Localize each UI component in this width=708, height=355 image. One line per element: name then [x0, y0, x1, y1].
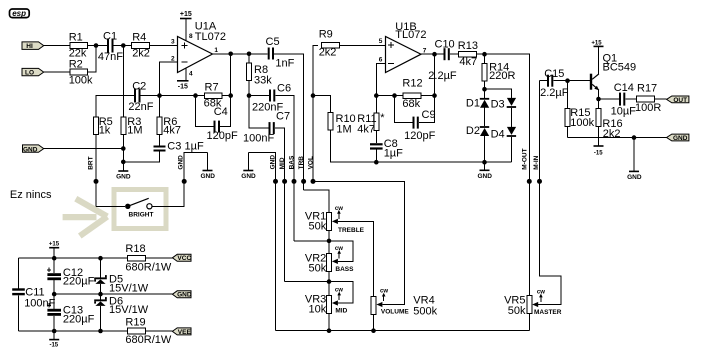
svg-text:MASTER: MASTER	[534, 309, 562, 316]
wire VR1 wiper to VR4 top	[338, 221, 374, 296]
svg-text:C1: C1	[103, 31, 117, 43]
supply stub -15 (R16 bottom)	[594, 127, 604, 157]
svg-text:8: 8	[189, 33, 193, 40]
svg-text:680R/1W: 680R/1W	[125, 262, 171, 274]
resistor R9	[319, 28, 340, 58]
svg-text:1nF: 1nF	[275, 57, 294, 69]
svg-text:4k7: 4k7	[459, 56, 477, 68]
svg-text:R7: R7	[205, 82, 219, 94]
U1A pin 4 supply stub -15	[177, 68, 193, 91]
svg-text:esp: esp	[12, 9, 26, 18]
svg-text:R4: R4	[132, 32, 146, 44]
svg-text:Ez nincs: Ez nincs	[10, 189, 52, 201]
wire C3 bottom to node	[123, 152, 159, 162]
resistor R1	[69, 32, 88, 60]
capacitor C9 with loop wires	[395, 96, 436, 142]
connector GND (power)	[172, 291, 191, 299]
svg-text:TL072: TL072	[395, 29, 426, 41]
svg-text:1k: 1k	[99, 125, 111, 137]
svg-text:1µF: 1µF	[384, 148, 403, 160]
wire U1B pin6 feedback stub	[376, 63, 385, 95]
svg-text:C10: C10	[435, 39, 455, 51]
node VR4/ground bus	[371, 328, 376, 333]
capacitor C1	[98, 31, 123, 64]
node diode bottom / ground line	[482, 160, 487, 165]
svg-text:220µF: 220µF	[63, 313, 95, 325]
node R7 right	[228, 93, 233, 98]
resistor R7	[204, 82, 222, 110]
wire VR5 bottom to ground bus	[528, 313, 530, 330]
wire R6 to C3	[159, 135, 161, 146]
ground symbol below C3 node	[116, 162, 131, 181]
connector GND (output)	[667, 134, 689, 142]
wire VR2 bottom	[328, 272, 330, 296]
svg-text:+15: +15	[49, 242, 60, 248]
node BAS breakout	[292, 179, 297, 184]
wire R11 to C8	[375, 131, 377, 144]
resistor R4	[132, 32, 150, 60]
svg-text:MID: MID	[335, 307, 347, 314]
capacitor C4 with loop wires	[196, 96, 238, 142]
capacitor C10	[428, 39, 457, 82]
ground symbol below output GND wire	[627, 138, 642, 182]
wire diode top cross	[485, 89, 512, 98]
wire R4 to U1A pin3	[150, 45, 178, 47]
wire BAS to VR2 top	[294, 240, 329, 242]
resistor R8	[247, 54, 273, 96]
op-amp U1B	[386, 21, 427, 73]
resistor R3	[121, 116, 143, 137]
svg-text:VCC: VCC	[177, 255, 191, 262]
resistor R10	[328, 113, 356, 136]
capacitor C11	[12, 258, 55, 331]
node TRB breakout	[301, 179, 306, 184]
wire R6 top	[159, 96, 161, 117]
capacitor C13	[47, 294, 95, 331]
svg-text:M-IN: M-IN	[533, 155, 540, 169]
node mid rail / C12 C13	[52, 292, 57, 297]
svg-text:4k7: 4k7	[163, 125, 181, 137]
wire LO to R2	[44, 71, 70, 73]
svg-text:68k: 68k	[402, 98, 420, 110]
svg-text:4k7: 4k7	[357, 124, 375, 136]
svg-text:C14: C14	[614, 82, 634, 94]
resistor R5	[94, 116, 113, 137]
svg-text:+15: +15	[591, 40, 602, 46]
wire M-IN to C15	[540, 80, 548, 82]
wire R10 branch	[313, 96, 331, 113]
svg-text:BC549: BC549	[603, 62, 637, 74]
svg-text:2: 2	[171, 55, 175, 62]
node bottom rail / C13	[52, 329, 57, 334]
svg-text:-15: -15	[178, 84, 188, 91]
svg-text:VEE: VEE	[178, 329, 192, 336]
node GND stub	[632, 135, 637, 140]
svg-text:M-OUT: M-OUT	[522, 148, 529, 169]
wire R3 bottom	[122, 135, 124, 149]
cw marker VR1	[335, 206, 343, 219]
diode D1	[466, 89, 489, 109]
svg-text:TL072: TL072	[195, 31, 226, 43]
capacitor C6	[252, 83, 291, 114]
annotation box around BRIGHT switch (beige)	[114, 190, 166, 229]
zener diode D5	[94, 258, 149, 295]
potentiometer VR1	[305, 211, 365, 234]
svg-text:BRIGHT: BRIGHT	[129, 211, 154, 218]
resistor R15	[565, 81, 595, 138]
svg-text:+15: +15	[180, 11, 192, 18]
svg-text:C9: C9	[422, 109, 436, 121]
wire R10 bottom to ground line	[331, 130, 512, 162]
wire VOL breakout to VR4 wiper	[313, 181, 405, 304]
wire VR3 wiper loop	[329, 282, 353, 303]
wire C8 bottom	[375, 150, 377, 163]
node VR2/VR3	[327, 279, 332, 284]
svg-text:D3: D3	[491, 99, 505, 111]
svg-text:1M: 1M	[336, 124, 351, 136]
node top rail / D5	[98, 256, 103, 261]
supply stub +15 (Q1 collector)	[591, 40, 603, 74]
wire C7 to MID column	[275, 128, 285, 282]
wire C6 to BAS column	[275, 96, 294, 241]
svg-text:C6: C6	[277, 83, 291, 95]
wire R19 to VEE tag	[146, 330, 173, 332]
svg-text:100nF: 100nF	[243, 133, 274, 145]
svg-text:680R/1W: 680R/1W	[125, 334, 171, 346]
svg-text:R12: R12	[402, 78, 422, 90]
wire R8 node to C6	[249, 95, 269, 97]
svg-text:120pF: 120pF	[404, 130, 435, 142]
wire U1B output	[421, 53, 444, 55]
svg-text:220µF: 220µF	[63, 275, 95, 287]
resistor R19	[125, 316, 171, 346]
svg-text:R19: R19	[125, 316, 145, 328]
svg-text:R9: R9	[319, 28, 333, 40]
svg-text:2k2: 2k2	[132, 48, 150, 60]
wire R2 up to R1 node	[88, 46, 97, 73]
connector HI	[22, 42, 44, 50]
svg-text:GND: GND	[178, 155, 185, 170]
svg-text:R2: R2	[69, 58, 83, 70]
svg-text:5: 5	[379, 38, 383, 45]
svg-text:GND: GND	[116, 174, 131, 181]
wire C5 to TRB column	[274, 54, 304, 190]
svg-text:-15: -15	[49, 342, 58, 348]
node output/R7	[228, 52, 233, 57]
svg-text:OUT: OUT	[673, 97, 687, 104]
wire C10 to R13	[450, 53, 459, 55]
node output/R12 vertical	[432, 52, 437, 57]
svg-text:100R: 100R	[635, 102, 661, 114]
node BRT breakout	[94, 179, 99, 184]
svg-text:LO: LO	[25, 70, 34, 77]
svg-text:GND: GND	[270, 155, 277, 170]
wire R15 bottom to GND tag	[568, 137, 667, 139]
capacitor C12	[47, 258, 95, 294]
svg-text:47nF: 47nF	[98, 51, 123, 63]
node C9 branch	[392, 93, 397, 98]
svg-text:1: 1	[214, 47, 218, 54]
svg-text:2.2µF: 2.2µF	[540, 87, 569, 99]
connector VCC	[172, 254, 191, 262]
node GND breakout	[273, 179, 278, 184]
svg-text:GND: GND	[177, 292, 192, 299]
wire U1A output line	[213, 53, 268, 55]
wire power bottom rail	[19, 330, 128, 332]
wire power mid rail	[54, 293, 172, 295]
wire power top rail	[19, 257, 128, 259]
wire R9 to U1B pin5	[340, 44, 386, 46]
svg-text:220R: 220R	[489, 70, 515, 82]
svg-text:6: 6	[379, 56, 383, 63]
node R1/R2/C1	[94, 43, 99, 48]
wire C15 to Q1 base	[553, 80, 590, 82]
svg-text:C7: C7	[276, 110, 290, 122]
node C3 return	[121, 160, 126, 165]
node base/R15	[565, 78, 570, 83]
connector OUT	[667, 96, 689, 104]
node M-IN breakout	[537, 179, 542, 184]
wire R13 to M-OUT corner	[477, 54, 530, 295]
svg-text:TREBLE: TREBLE	[338, 227, 365, 234]
svg-text:D1: D1	[466, 97, 480, 109]
svg-text:C2: C2	[132, 81, 146, 93]
svg-text:1µF: 1µF	[185, 140, 204, 152]
svg-text:MID: MID	[279, 157, 286, 169]
node M-OUT breakout	[527, 179, 532, 184]
svg-text:HI: HI	[26, 43, 33, 50]
svg-text:100nF: 100nF	[24, 297, 55, 309]
svg-text:GND: GND	[241, 173, 256, 180]
svg-text:GND: GND	[200, 173, 215, 180]
svg-text:4: 4	[189, 70, 193, 77]
wire HI to R1	[44, 45, 70, 47]
node pin6/R11	[374, 93, 379, 98]
potentiometer VR5	[504, 295, 562, 318]
wire GND tag to R3 bottom	[44, 148, 124, 150]
resistor R17	[635, 83, 661, 115]
capacitor C14	[611, 82, 637, 118]
wire R18 to VCC tag	[146, 257, 173, 259]
svg-text:50k: 50k	[309, 263, 327, 275]
capacitor C7	[243, 110, 290, 144]
svg-text:15V/1W: 15V/1W	[109, 304, 149, 316]
wire BRT column (R5 bottom to switch)	[95, 135, 97, 207]
op-amp U1A	[178, 20, 227, 72]
ground symbol at switch hook	[200, 153, 215, 181]
ground symbol on signal ground line	[477, 162, 492, 180]
resistor R12	[402, 78, 422, 110]
wire switch to GND column	[152, 153, 208, 207]
wire GND column with top hook	[248, 152, 275, 330]
svg-text:GND: GND	[23, 146, 38, 153]
transistor Q1	[590, 53, 636, 91]
svg-text:D2: D2	[466, 125, 480, 137]
wire R1 to C1	[88, 45, 108, 47]
wire down to C3 node	[122, 149, 124, 162]
diode D4	[491, 127, 517, 162]
svg-text:R13: R13	[458, 40, 478, 52]
resistor R2	[69, 58, 93, 86]
wire VOL column to R9	[313, 45, 318, 181]
capacitor C3	[154, 140, 204, 152]
svg-text:GND: GND	[627, 174, 642, 181]
connector VEE	[172, 328, 191, 336]
wire R7 feedback vertical	[230, 54, 232, 96]
wire R12 right	[421, 95, 435, 97]
svg-text:22nF: 22nF	[128, 101, 153, 113]
svg-text:33k: 33k	[254, 74, 272, 86]
supply stub +15 (power section)	[49, 242, 60, 259]
switch BRIGHT	[96, 198, 153, 218]
node VOL breakout	[311, 179, 316, 184]
wire VR3 bottom	[328, 314, 330, 331]
wire VR4 bottom	[373, 314, 375, 330]
svg-text:50k: 50k	[309, 220, 327, 232]
cw marker VR3	[335, 288, 343, 300]
svg-text:*: *	[380, 112, 385, 124]
wire R8 node down to C7	[249, 96, 269, 129]
wire C1 node down to R3	[122, 46, 124, 118]
svg-text:BAS: BAS	[288, 155, 295, 169]
svg-text:GND: GND	[477, 173, 492, 180]
diode D2	[466, 108, 489, 138]
svg-text:10µF: 10µF	[611, 106, 637, 118]
wire TRB to VR1 top	[304, 190, 329, 213]
resistor R11	[357, 96, 385, 136]
svg-text:BASS: BASS	[335, 266, 354, 273]
wire output node down	[434, 54, 436, 95]
svg-text:C4: C4	[214, 106, 228, 118]
node C8/ground line	[374, 160, 379, 165]
wire D2 bottom	[484, 136, 486, 162]
node R12 right	[432, 93, 437, 98]
wire emitter to C14	[599, 98, 620, 100]
node MID breakout	[282, 179, 287, 184]
wire C2 to R7	[141, 95, 205, 97]
wire C14 to R17	[625, 98, 636, 100]
node diode top	[482, 87, 487, 92]
node VR1/VR2	[327, 239, 332, 244]
U1A pin 8 supply stub +15	[180, 11, 193, 41]
capacitor C2	[128, 81, 153, 114]
wire VR1 bottom	[328, 231, 330, 254]
connector GND (input)	[23, 145, 44, 153]
wire VR2 wiper loop	[329, 241, 353, 262]
ground symbol at GND column hook	[241, 152, 256, 180]
potentiometer VR2	[305, 253, 354, 275]
wire Q1 emitter down	[598, 90, 600, 109]
svg-text:10k: 10k	[309, 304, 327, 316]
resistor R13	[458, 40, 478, 68]
svg-text:D4: D4	[491, 128, 505, 140]
svg-text:100k: 100k	[69, 74, 93, 86]
svg-text:TRB: TRB	[298, 156, 305, 170]
cw marker VR4	[380, 289, 388, 301]
svg-text:C5: C5	[266, 36, 280, 48]
annotation arrow (beige)	[63, 199, 108, 236]
node R8 bottom	[247, 93, 252, 98]
svg-text:100k: 100k	[570, 117, 594, 129]
node mid rail / D5 D6	[98, 292, 103, 297]
resistor R14	[482, 54, 515, 89]
node R7 left	[193, 93, 198, 98]
capacitor C5	[266, 36, 295, 70]
svg-text:1M: 1M	[127, 125, 142, 137]
svg-text:BRT: BRT	[88, 156, 95, 169]
svg-text:2k2: 2k2	[319, 46, 337, 58]
diode D3	[491, 98, 517, 127]
svg-text:C15: C15	[544, 68, 564, 80]
node R13/R14	[482, 52, 487, 57]
capacitor C15	[540, 68, 569, 99]
potentiometer VR3	[305, 294, 348, 316]
node GND/R3	[121, 146, 126, 151]
svg-text:500k: 500k	[413, 305, 437, 317]
resistor R6	[157, 116, 181, 137]
node bottom rail / D6	[98, 329, 103, 334]
svg-text:7: 7	[423, 47, 427, 54]
wire R12 line	[376, 95, 403, 97]
resistor R16	[596, 109, 623, 140]
zener diode D6	[94, 294, 149, 331]
resistor R18	[125, 243, 171, 274]
supply stub -15 (power section)	[49, 331, 59, 348]
svg-text:-15: -15	[594, 151, 603, 157]
svg-text:2.2µF: 2.2µF	[428, 70, 457, 82]
capacitor C8	[370, 138, 403, 160]
wire M-IN to VR5 wiper	[538, 81, 561, 305]
svg-text:VOLUME: VOLUME	[381, 308, 409, 315]
wire ground bus bottom	[276, 330, 530, 332]
cw marker VR2	[335, 246, 343, 258]
svg-text:120pF: 120pF	[207, 130, 238, 142]
wire C1 to R4	[114, 45, 132, 47]
svg-text:R1: R1	[69, 32, 83, 44]
wire R17 to OUT tag	[655, 98, 667, 100]
node switch GND breakout	[182, 179, 187, 184]
cw marker VR5	[537, 289, 545, 302]
connector LO	[22, 68, 44, 76]
svg-text:R17: R17	[637, 83, 657, 95]
wire MID to VR3 top	[285, 281, 329, 283]
node VR3/ground bus	[327, 328, 332, 333]
esp logo	[10, 9, 30, 18]
wire C2 left / R5 top	[96, 96, 134, 117]
node VOL/R10	[311, 93, 316, 98]
svg-text:R18: R18	[125, 243, 145, 255]
potentiometer VR4	[371, 294, 438, 317]
node emitter/C14	[596, 97, 601, 102]
svg-text:GND: GND	[673, 135, 688, 142]
svg-text:C3: C3	[167, 140, 181, 152]
node C2/R6/pin2	[157, 93, 162, 98]
svg-text:15V/1W: 15V/1W	[109, 283, 149, 295]
wire pin2 stub	[160, 62, 178, 95]
node top rail / C12	[52, 256, 57, 261]
svg-text:50k: 50k	[508, 305, 526, 317]
wire R7 right	[222, 95, 231, 97]
node output/R8	[247, 52, 252, 57]
node C1/R4/R3	[121, 43, 126, 48]
svg-text:3: 3	[171, 39, 175, 46]
